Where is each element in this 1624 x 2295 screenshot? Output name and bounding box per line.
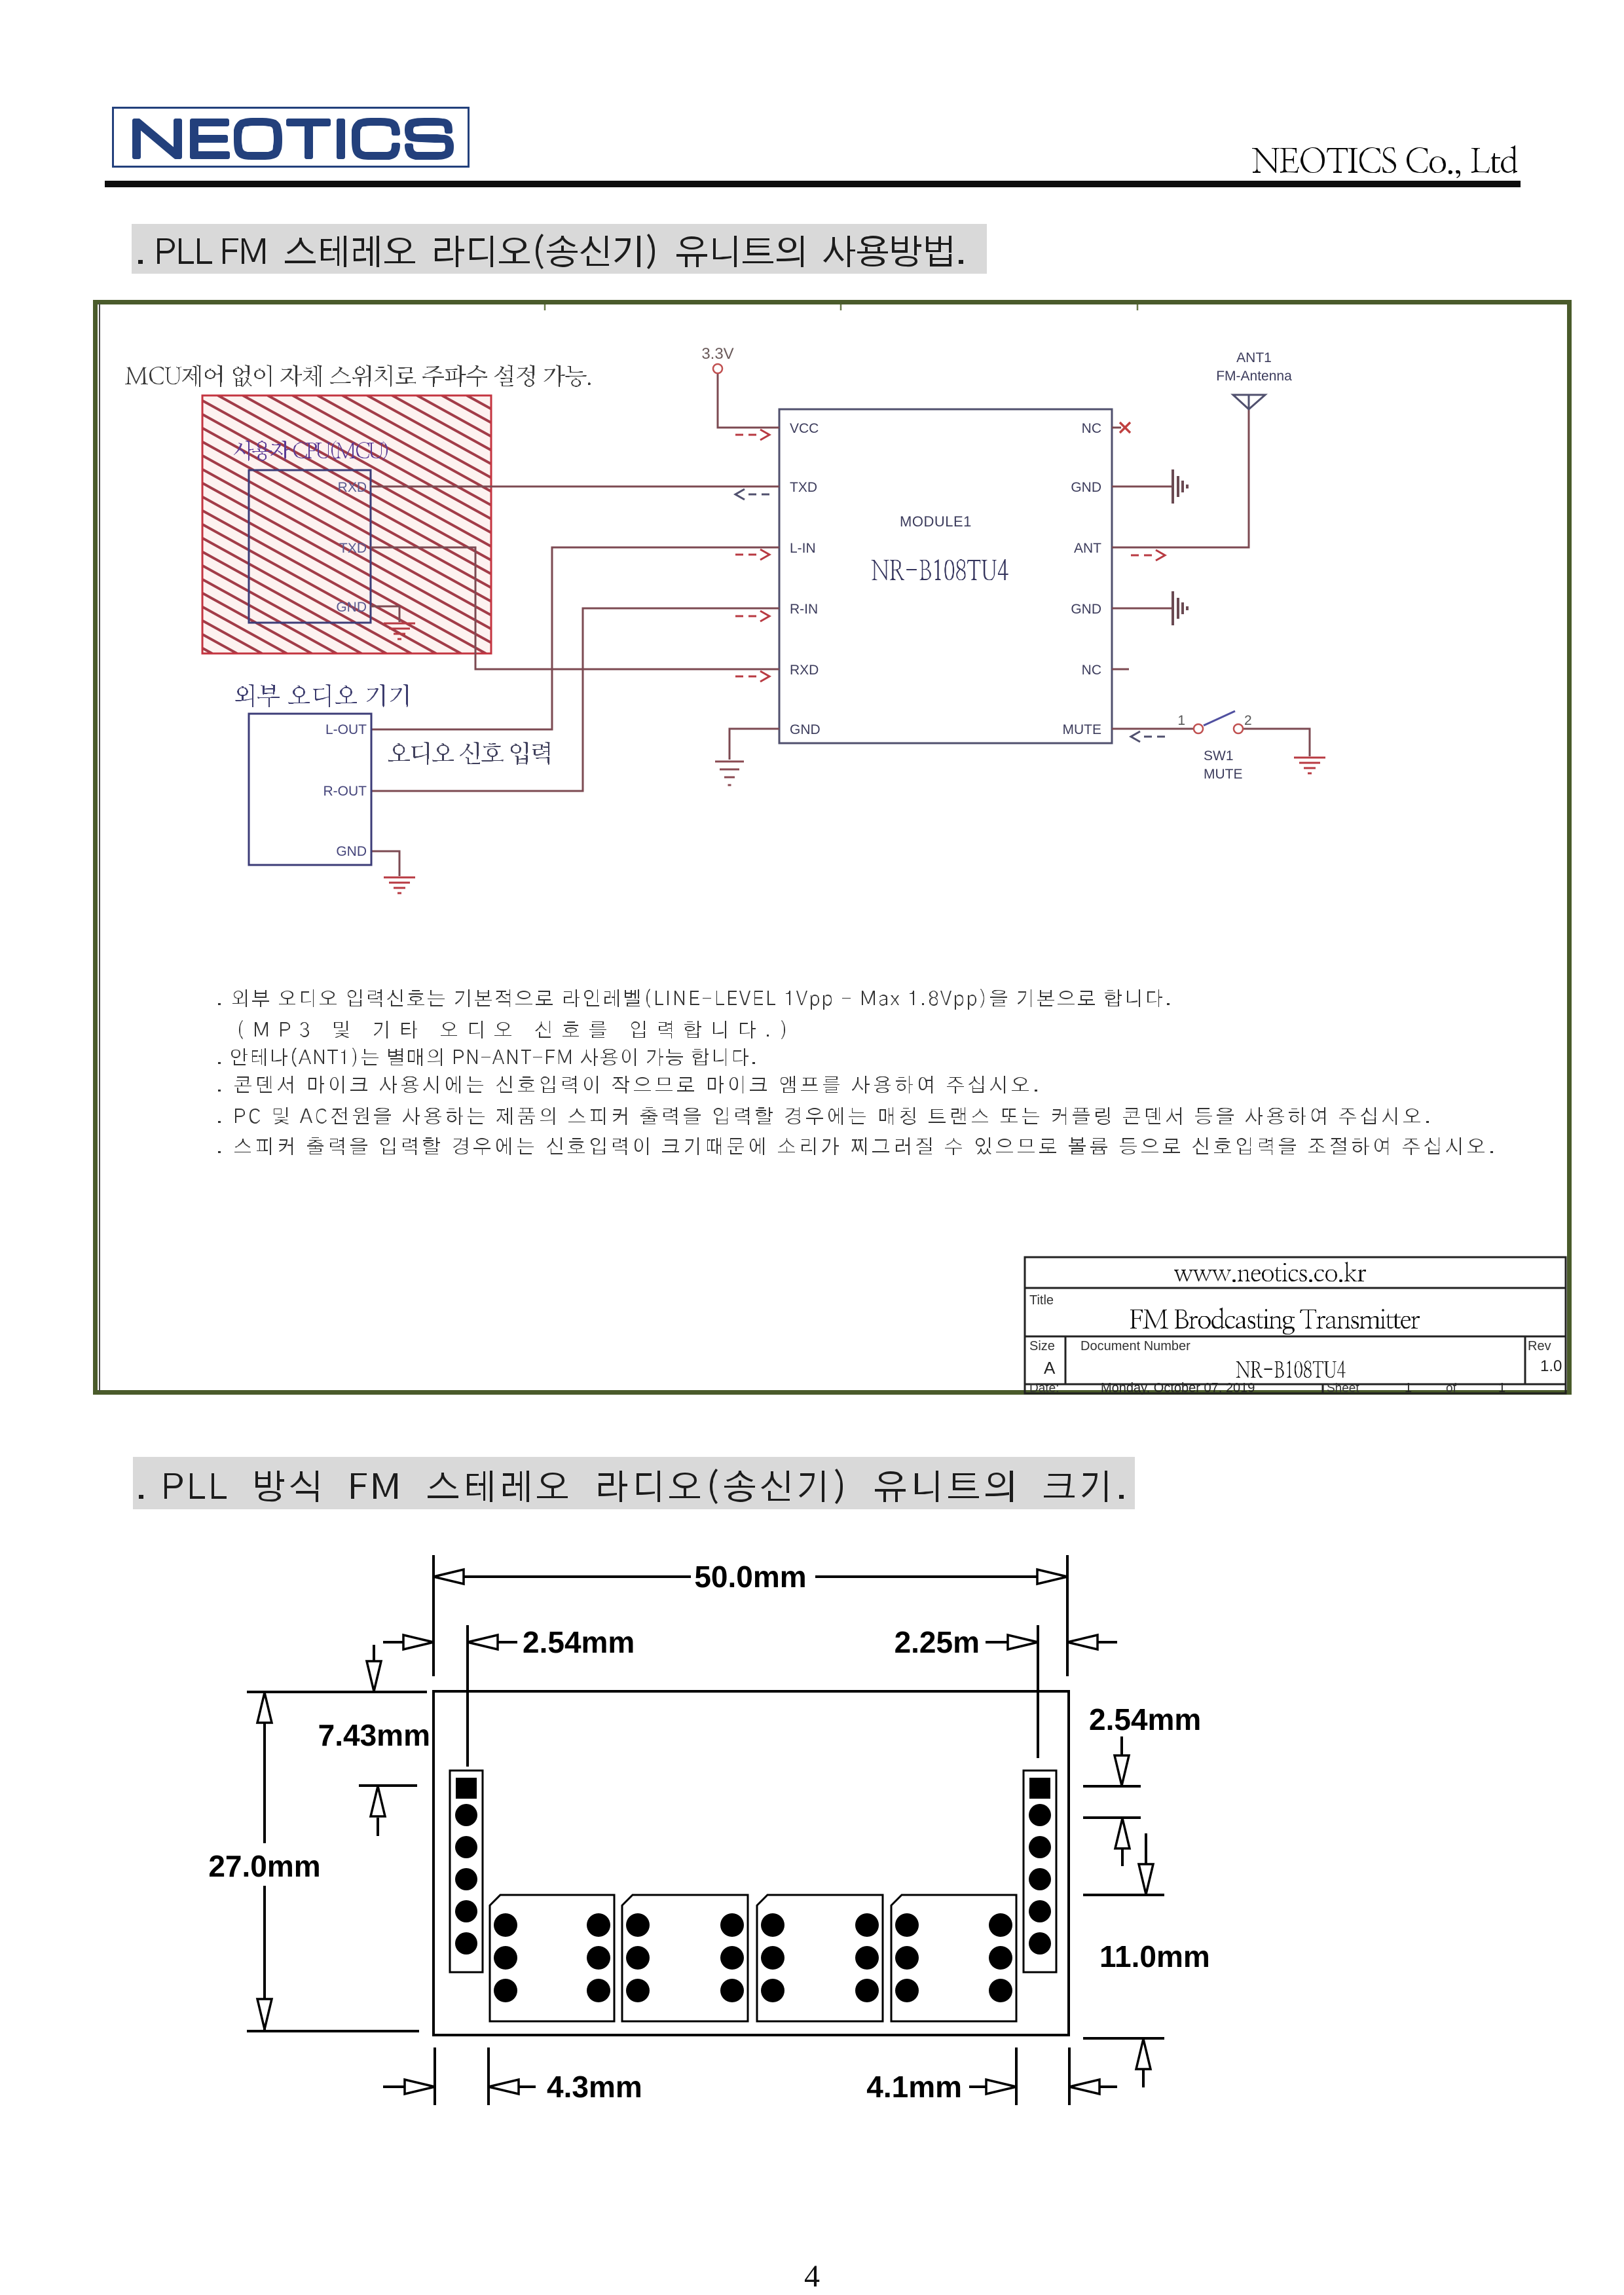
svg-text:A: A	[1044, 1358, 1056, 1378]
svg-text:Monday, October 07, 2019: Monday, October 07, 2019	[1101, 1381, 1255, 1395]
svg-text:L-IN: L-IN	[790, 541, 816, 556]
svg-text:GND: GND	[1071, 480, 1101, 495]
svg-text:MUTE: MUTE	[1204, 767, 1243, 782]
svg-text:1: 1	[1177, 713, 1185, 728]
svg-text:Sheet: Sheet	[1327, 1382, 1359, 1395]
svg-text:50.0mm: 50.0mm	[694, 1560, 806, 1594]
svg-text:R-IN: R-IN	[790, 602, 818, 617]
svg-text:RXD: RXD	[338, 480, 367, 495]
svg-text:GND: GND	[336, 844, 367, 859]
svg-text:TXD: TXD	[790, 480, 817, 495]
svg-text:MUTE: MUTE	[1063, 722, 1102, 737]
svg-text:4.1mm: 4.1mm	[866, 2070, 962, 2104]
svg-text:of: of	[1446, 1382, 1457, 1395]
svg-text:1: 1	[1405, 1381, 1412, 1395]
svg-text:ANT: ANT	[1074, 541, 1101, 556]
svg-text:NC: NC	[1082, 663, 1101, 678]
svg-text:Title: Title	[1029, 1293, 1054, 1308]
svg-text:Document Number: Document Number	[1080, 1339, 1190, 1353]
svg-text:ANT1: ANT1	[1236, 350, 1272, 365]
svg-text:L-OUT: L-OUT	[325, 722, 367, 737]
svg-text:11.0mm: 11.0mm	[1099, 1939, 1210, 1974]
svg-text:4: 4	[804, 2259, 820, 2294]
svg-text:RXD: RXD	[790, 663, 819, 678]
svg-text:FM-Antenna: FM-Antenna	[1216, 369, 1292, 384]
svg-text:GND: GND	[336, 600, 367, 615]
svg-text:3.3V: 3.3V	[701, 345, 733, 363]
svg-text:4.3mm: 4.3mm	[547, 2070, 642, 2104]
svg-text:TXD: TXD	[339, 541, 367, 556]
svg-text:1.0: 1.0	[1540, 1357, 1562, 1375]
svg-text:2.54mm: 2.54mm	[1089, 1702, 1201, 1736]
svg-text:GND: GND	[790, 722, 821, 737]
svg-text:27.0mm: 27.0mm	[208, 1849, 320, 1883]
svg-text:SW1: SW1	[1204, 748, 1234, 763]
svg-text:2.54mm: 2.54mm	[523, 1625, 635, 1659]
svg-text:NC: NC	[1082, 421, 1101, 436]
svg-text:MODULE1: MODULE1	[900, 513, 972, 530]
svg-text:Rev: Rev	[1528, 1339, 1551, 1353]
svg-text:Date:: Date:	[1029, 1382, 1059, 1395]
svg-text:R-OUT: R-OUT	[323, 784, 367, 799]
svg-text:GND: GND	[1071, 602, 1101, 617]
svg-text:2.25m: 2.25m	[895, 1625, 980, 1659]
svg-text:2: 2	[1244, 713, 1252, 728]
svg-text:Size: Size	[1029, 1339, 1055, 1353]
svg-text:1: 1	[1498, 1381, 1505, 1395]
svg-text:VCC: VCC	[790, 421, 819, 436]
svg-text:7.43mm: 7.43mm	[318, 1718, 430, 1752]
